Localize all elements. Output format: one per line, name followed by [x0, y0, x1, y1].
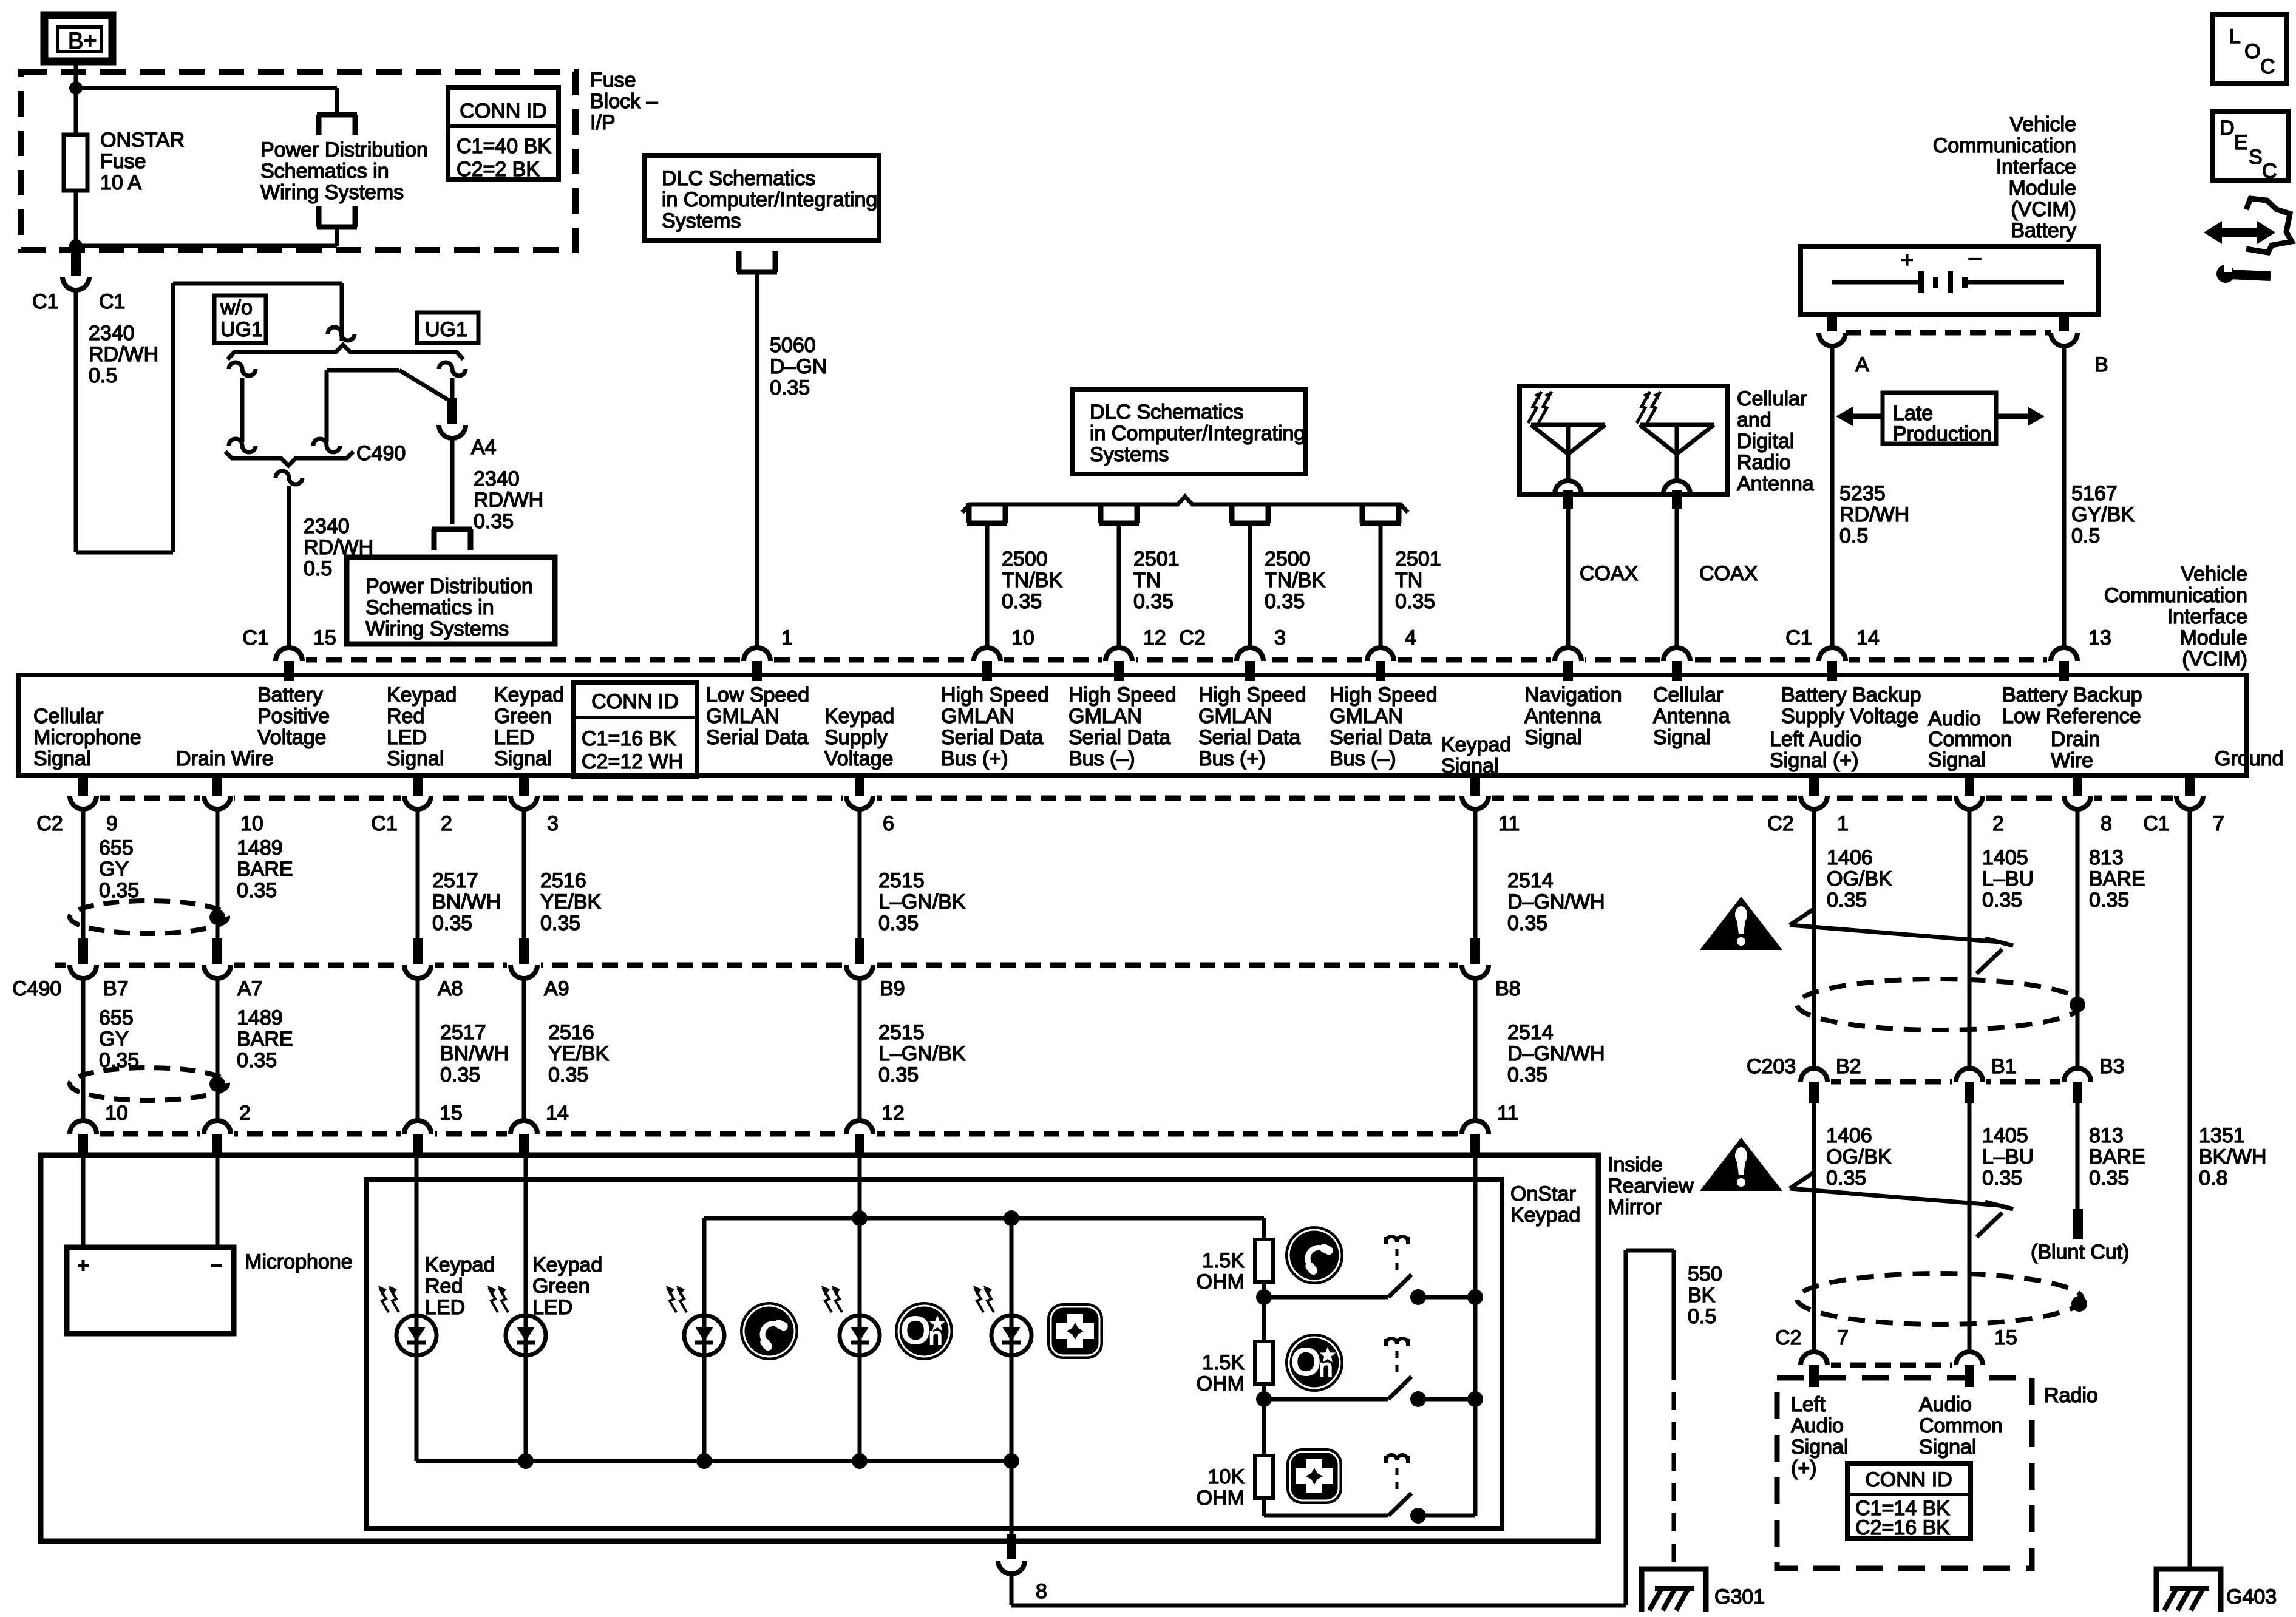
- svg-text:Green: Green: [494, 705, 552, 728]
- Microphone box: [67, 1247, 234, 1334]
- svg-text:Radio: Radio: [2044, 1384, 2098, 1407]
- svg-text:OHM: OHM: [1197, 1372, 1245, 1395]
- battery pin A: [1827, 314, 1837, 331]
- w/o UG1 box: [214, 296, 266, 343]
- C490 pin A8: [401, 958, 435, 972]
- svg-text:0.35: 0.35: [2089, 1167, 2129, 1190]
- svg-text:A7: A7: [237, 977, 263, 1000]
- DLC2 split brace: [962, 497, 1408, 512]
- mirror row pin 14: [507, 1127, 541, 1141]
- svg-text:D–GN: D–GN: [770, 355, 827, 378]
- svg-text:Keypad: Keypad: [1441, 733, 1511, 756]
- DESC box: [2213, 111, 2288, 180]
- radio pin 15: [1952, 1358, 1986, 1372]
- svg-text:813: 813: [2089, 846, 2124, 869]
- mirror row pin 12: [843, 1127, 877, 1141]
- shield ellipse 4: [1797, 1273, 2082, 1324]
- wire 2340 RD/WH 0.35: [450, 438, 455, 524]
- svg-text:C2=12 WH: C2=12 WH: [582, 750, 683, 773]
- wire 2514 D-GN/WH lower: [1473, 978, 1478, 1120]
- svg-text:L: L: [2229, 25, 2241, 48]
- svg-text:Interface: Interface: [2167, 605, 2247, 628]
- svg-text:Keypad: Keypad: [532, 1253, 602, 1276]
- switch row 3: [1264, 1514, 1388, 1518]
- svg-text:2: 2: [1992, 812, 2004, 835]
- CONN ID box (fuse block): [448, 87, 559, 180]
- svg-text:Positive: Positive: [257, 705, 330, 728]
- svg-text:BK: BK: [1688, 1284, 1716, 1307]
- svg-text:Block –: Block –: [590, 90, 658, 113]
- junction: [69, 81, 83, 95]
- service icon outline: [2246, 198, 2292, 253]
- svg-text:Fuse: Fuse: [100, 150, 146, 173]
- ground G301: [1642, 1569, 1706, 1612]
- phone button icon 2: [1285, 1226, 1343, 1284]
- svg-text:Serial Data: Serial Data: [941, 726, 1043, 749]
- svg-text:10: 10: [240, 812, 263, 835]
- svg-text:GMLAN: GMLAN: [1198, 705, 1272, 728]
- wire 2515 L-GN/BK lower: [858, 978, 862, 1120]
- svg-text:C490: C490: [12, 977, 61, 1000]
- connector C490 pin A4: [435, 418, 469, 432]
- LOC box: [2213, 15, 2287, 84]
- svg-text:Rearview: Rearview: [1608, 1175, 1694, 1198]
- svg-text:G301: G301: [1714, 1585, 1765, 1609]
- svg-text:2: 2: [441, 812, 452, 835]
- LED5: [991, 1315, 1031, 1355]
- svg-text:0.35: 0.35: [1982, 889, 2022, 912]
- LED5 wire: [1010, 1218, 1014, 1315]
- svg-text:1.5K: 1.5K: [1202, 1249, 1245, 1272]
- wire 2340 RD/WH 0.5 left run: [74, 290, 78, 552]
- svg-text:Audio: Audio: [1791, 1414, 1844, 1437]
- UG1 link wire: [327, 368, 399, 373]
- svg-text:GY: GY: [99, 858, 129, 881]
- svg-text:Serial Data: Serial Data: [706, 726, 808, 749]
- svg-text:C2: C2: [1179, 626, 1205, 649]
- svg-text:COAX: COAX: [1580, 562, 1638, 585]
- svg-text:0.35: 0.35: [99, 879, 139, 902]
- Radio dashed box: [1777, 1378, 2032, 1568]
- svg-text:0.35: 0.35: [770, 376, 810, 399]
- svg-text:813: 813: [2089, 1124, 2124, 1147]
- keypad signal bus: [1473, 1156, 1478, 1516]
- Late Production box: [1883, 393, 1996, 444]
- cross button icon: [1047, 1303, 1103, 1359]
- LED4: [840, 1315, 880, 1355]
- svg-text:Communication: Communication: [1933, 134, 2076, 157]
- svg-text:Green: Green: [532, 1275, 590, 1298]
- resistor feed: [1262, 1218, 1266, 1239]
- connector C1 fuse block: [59, 269, 93, 284]
- wire 1406 OG/BK lower: [1812, 1103, 1816, 1352]
- svg-text:Supply Voltage: Supply Voltage: [1781, 705, 1919, 728]
- VCIM bottom pin 2: [1952, 791, 1986, 805]
- svg-text:Cellular: Cellular: [33, 705, 103, 728]
- svg-text:L–BU: L–BU: [1982, 867, 2034, 890]
- mirror row pin 10: [66, 1127, 100, 1141]
- svg-text:0.35: 0.35: [1982, 1167, 2022, 1190]
- svg-text:11: 11: [1498, 812, 1520, 835]
- wire 2514 D-GN/WH upper: [1473, 809, 1478, 940]
- svg-text:DLC Schematics: DLC Schematics: [662, 167, 815, 190]
- CONN ID box (radio): [1847, 1463, 1971, 1539]
- svg-text:B3: B3: [2099, 1055, 2125, 1078]
- VCIM bottom pin 3: [507, 791, 541, 805]
- wire LED bus to connector 8: [1010, 1461, 1014, 1536]
- svg-text:CONN ID: CONN ID: [460, 100, 547, 123]
- svg-text:Module: Module: [2179, 626, 2247, 649]
- svg-text:ONSTAR: ONSTAR: [100, 129, 185, 152]
- power feed B+ box: [44, 15, 112, 61]
- svg-text:Signal: Signal: [1653, 726, 1711, 749]
- svg-text:YE/BK: YE/BK: [540, 890, 601, 914]
- wire 2516 YE/BK upper: [522, 809, 526, 940]
- UG1 branch curl: [439, 362, 466, 376]
- svg-text:2: 2: [239, 1102, 251, 1125]
- VCIM top pin 10: [970, 653, 1004, 667]
- svg-text:BN/WH: BN/WH: [440, 1042, 509, 1065]
- svg-text:Vehicle: Vehicle: [2009, 113, 2076, 136]
- svg-text:0.35: 0.35: [237, 1049, 277, 1072]
- svg-text:in Computer/Integrating: in Computer/Integrating: [1090, 422, 1305, 445]
- LED cathode bus: [415, 1355, 419, 1461]
- svg-text:1489: 1489: [237, 1006, 283, 1029]
- antenna cellular: [1640, 423, 1714, 427]
- pointer arrow 2: [1790, 1188, 2000, 1205]
- svg-text:Battery Backup: Battery Backup: [2002, 683, 2142, 707]
- svg-text:Signal: Signal: [1919, 1436, 1977, 1459]
- svg-text:Red: Red: [425, 1275, 463, 1298]
- C490 pin A7: [200, 958, 234, 972]
- svg-text:RD/WH: RD/WH: [89, 343, 158, 366]
- svg-text:0.35: 0.35: [1507, 1063, 1547, 1086]
- Power Distribution Schematics box: [347, 557, 555, 644]
- svg-text:0.5: 0.5: [1688, 1305, 1716, 1328]
- warning triangle 2: [1700, 1137, 1782, 1191]
- svg-text:C1: C1: [371, 812, 397, 835]
- mirror row pin 2: [200, 1127, 234, 1141]
- wire 1405 L-BU lower: [1968, 1103, 1972, 1352]
- svg-text:Ground: Ground: [2215, 747, 2283, 770]
- svg-text:Red: Red: [387, 705, 424, 728]
- svg-text:Serial Data: Serial Data: [1068, 726, 1170, 749]
- svg-text:LED: LED: [387, 726, 427, 749]
- C490 pin B7: [66, 958, 100, 972]
- svg-text:GY/BK: GY/BK: [2071, 503, 2135, 526]
- svg-text:2340: 2340: [304, 515, 350, 538]
- VCIM top pin 1: [740, 653, 774, 667]
- VCIM bottom pin 7: [2173, 791, 2207, 805]
- bracket from power distribution: [317, 206, 357, 227]
- resistor R1 1.5K: [1255, 1239, 1273, 1282]
- svg-text:Keypad: Keypad: [1510, 1204, 1580, 1227]
- svg-text:14: 14: [1856, 626, 1880, 649]
- COAX wire cellular: [1675, 509, 1679, 648]
- svg-text:(VCIM): (VCIM): [2011, 198, 2076, 221]
- svg-text:High Speed: High Speed: [1330, 683, 1438, 707]
- wire 655 GY lower: [81, 978, 86, 1120]
- svg-text:0.5: 0.5: [304, 557, 332, 580]
- svg-text:BARE: BARE: [237, 1028, 293, 1051]
- VCIM battery box: [1801, 246, 2098, 314]
- svg-text:Signal: Signal: [1928, 748, 1986, 771]
- svg-text:Signal: Signal: [1524, 726, 1582, 749]
- svg-text:Bus (+): Bus (+): [1198, 747, 1266, 770]
- svg-text:Navigation: Navigation: [1524, 683, 1622, 707]
- feed wire to VCIM C1-15: [276, 471, 302, 484]
- svg-text:(+): (+): [1791, 1457, 1817, 1480]
- svg-text:12: 12: [1143, 626, 1166, 649]
- svg-text:2340: 2340: [474, 467, 520, 490]
- svg-text:TN/BK: TN/BK: [1002, 569, 1062, 592]
- wire R2-R3: [1262, 1384, 1266, 1456]
- svg-text:Inside: Inside: [1608, 1153, 1663, 1176]
- svg-text:C490: C490: [356, 442, 406, 465]
- svg-text:2514: 2514: [1507, 869, 1554, 892]
- svg-text:BARE: BARE: [237, 858, 293, 881]
- svg-text:A4: A4: [471, 436, 497, 459]
- svg-text:LED: LED: [425, 1296, 465, 1319]
- svg-text:Signal (+): Signal (+): [1770, 749, 1858, 772]
- wire 2517 BN/WH lower: [416, 978, 420, 1120]
- svg-text:Left: Left: [1791, 1393, 1826, 1416]
- svg-text:1405: 1405: [1982, 1124, 2028, 1147]
- svg-text:Antenna: Antenna: [1653, 705, 1730, 728]
- switch row 2: [1264, 1397, 1388, 1402]
- svg-text:D: D: [2220, 117, 2235, 140]
- svg-text:Voltage: Voltage: [257, 726, 326, 749]
- onstar button icon 2: [1285, 1334, 1343, 1392]
- svg-text:10: 10: [1011, 626, 1034, 649]
- svg-text:Voltage: Voltage: [824, 747, 893, 770]
- warning triangle 1: [1700, 897, 1782, 950]
- svg-text:1: 1: [781, 626, 793, 649]
- svg-text:2517: 2517: [440, 1021, 486, 1044]
- svg-text:YE/BK: YE/BK: [548, 1042, 609, 1065]
- svg-text:2340: 2340: [89, 322, 135, 345]
- merge brace: [225, 452, 353, 466]
- mirror row pin 15: [401, 1127, 435, 1141]
- wire 5235 RD/WH 0.5: [1830, 346, 1835, 648]
- svg-text:15: 15: [313, 626, 336, 649]
- wire 813 BARE blunt cut: [2076, 1103, 2080, 1209]
- VCIM top pin 13: [2047, 653, 2081, 667]
- svg-text:5235: 5235: [1839, 482, 1886, 505]
- antenna navigation: [1531, 423, 1605, 427]
- svg-text:C1: C1: [99, 290, 125, 313]
- VCIM top connector dashed line: [276, 657, 2076, 663]
- svg-text:TN: TN: [1395, 569, 1422, 592]
- VCIM bottom pin 8: [2060, 791, 2094, 805]
- svg-text:RD/WH: RD/WH: [1839, 503, 1909, 526]
- svg-text:O: O: [2244, 40, 2260, 63]
- svg-text:BARE: BARE: [2089, 1145, 2145, 1168]
- wire 1489 BARE lower: [216, 978, 220, 1120]
- svg-text:2517: 2517: [432, 869, 478, 892]
- shield ellipse 2: [70, 1068, 228, 1100]
- svg-text:0.35: 0.35: [440, 1063, 480, 1086]
- wire 1351 BK/WH ground: [2188, 809, 2192, 1569]
- svg-text:2501: 2501: [1133, 547, 1180, 571]
- wire fuse to C1: [74, 191, 78, 251]
- wire to power distribution loop: [76, 86, 337, 90]
- VCIM bottom connector dashed line: [70, 796, 2204, 801]
- svg-text:C1=16 BK: C1=16 BK: [582, 727, 676, 750]
- svg-text:UG1: UG1: [220, 318, 263, 341]
- resistor R3 10K: [1255, 1456, 1273, 1498]
- wire to microphone +: [81, 1156, 86, 1247]
- svg-text:2501: 2501: [1395, 547, 1441, 571]
- svg-text:2500: 2500: [1265, 547, 1311, 571]
- svg-text:Power Distribution: Power Distribution: [260, 138, 428, 161]
- VCIM top pin 4: [1364, 653, 1398, 667]
- svg-text:OG/BK: OG/BK: [1827, 867, 1892, 890]
- svg-text:Antenna: Antenna: [1737, 472, 1814, 495]
- VCIM bottom pin 1: [1797, 791, 1831, 805]
- svg-text:0.35: 0.35: [1002, 590, 1042, 613]
- COAX wire navigation: [1566, 509, 1571, 648]
- svg-text:Cellular: Cellular: [1653, 683, 1723, 707]
- DLC2 drop bracket 3: [1230, 503, 1270, 523]
- svg-text:15: 15: [440, 1102, 463, 1125]
- svg-text:Module: Module: [2008, 177, 2076, 200]
- svg-text:10 A: 10 A: [100, 171, 141, 194]
- svg-text:0.35: 0.35: [878, 1063, 919, 1086]
- svg-text:CONN ID: CONN ID: [591, 690, 679, 713]
- svg-text:Supply: Supply: [824, 726, 888, 749]
- wire R1-R2: [1262, 1282, 1266, 1341]
- VCIM bottom pin 6: [843, 791, 877, 805]
- shield ellipse 3: [1797, 979, 2082, 1030]
- svg-text:TN: TN: [1133, 569, 1161, 592]
- svg-text:B9: B9: [880, 977, 905, 1000]
- svg-text:4: 4: [1405, 626, 1416, 649]
- svg-text:O: O: [901, 1310, 930, 1352]
- svg-text:C2: C2: [1767, 812, 1793, 835]
- svg-text:Drain: Drain: [2051, 728, 2100, 751]
- svg-text:655: 655: [99, 836, 134, 859]
- svg-text:Signal: Signal: [33, 747, 91, 770]
- svg-text:L–GN/BK: L–GN/BK: [878, 1042, 966, 1065]
- DLC2 drop bracket 1: [967, 503, 1007, 523]
- wire back to fuse bottom: [335, 229, 339, 246]
- svg-text:Serial Data: Serial Data: [1198, 726, 1300, 749]
- VCIM bottom pin 9: [66, 791, 100, 805]
- wire keypad red LED: [415, 1156, 419, 1315]
- svg-text:High Speed: High Speed: [1198, 683, 1306, 707]
- svg-text:10K: 10K: [1208, 1465, 1245, 1488]
- C490 pin A9: [507, 958, 541, 972]
- svg-text:655: 655: [99, 1006, 134, 1029]
- VCIM bottom pin 2: [401, 791, 435, 805]
- svg-text:Left Audio: Left Audio: [1770, 728, 1861, 751]
- svg-text:Schematics in: Schematics in: [365, 596, 494, 619]
- ground G403: [2156, 1569, 2221, 1612]
- wire 2500: [1248, 526, 1252, 648]
- svg-text:Common: Common: [1919, 1414, 2003, 1437]
- svg-text:Systems: Systems: [1090, 443, 1169, 466]
- svg-text:Audio: Audio: [1928, 707, 1981, 730]
- svg-text:A8: A8: [438, 977, 463, 1000]
- svg-text:Battery: Battery: [2011, 219, 2076, 242]
- svg-text:11: 11: [1497, 1102, 1518, 1125]
- svg-text:6: 6: [883, 812, 894, 835]
- service icon arrow: [2217, 228, 2262, 237]
- svg-text:0.35: 0.35: [1826, 1167, 1866, 1190]
- radio pin 7: [1797, 1358, 1831, 1372]
- svg-text:Signal: Signal: [1441, 754, 1499, 778]
- svg-text:S: S: [2249, 146, 2263, 169]
- svg-text:13: 13: [2088, 626, 2111, 649]
- keypad red LED: [396, 1315, 436, 1355]
- DLC Schematics box 2: [1072, 389, 1306, 474]
- svg-text:G403: G403: [2226, 1585, 2277, 1609]
- wire 2516 YE/BK lower: [522, 978, 526, 1120]
- svg-text:Low Speed: Low Speed: [706, 683, 809, 707]
- svg-text:High Speed: High Speed: [941, 683, 1049, 707]
- keypad supply wire: [858, 1156, 862, 1218]
- svg-text:Bus (+): Bus (+): [941, 747, 1008, 770]
- svg-text:0.35: 0.35: [1265, 590, 1305, 613]
- svg-text:O: O: [1291, 1341, 1320, 1383]
- svg-text:L–BU: L–BU: [1982, 1145, 2034, 1168]
- svg-text:Signal: Signal: [387, 747, 444, 770]
- svg-text:Production: Production: [1893, 422, 1992, 446]
- svg-text:B1: B1: [1991, 1055, 2017, 1078]
- svg-text:0.8: 0.8: [2199, 1167, 2227, 1190]
- svg-text:High Speed: High Speed: [1068, 683, 1177, 707]
- svg-text:BN/WH: BN/WH: [432, 890, 501, 914]
- switch row 1: [1264, 1295, 1388, 1300]
- bracket from DLC1: [737, 251, 777, 272]
- svg-text:1: 1: [1837, 812, 1849, 835]
- svg-text:GMLAN: GMLAN: [941, 705, 1014, 728]
- svg-text:Serial Data: Serial Data: [1330, 726, 1432, 749]
- svg-text:OG/BK: OG/BK: [1826, 1145, 1892, 1168]
- svg-text:OHM: OHM: [1197, 1486, 1245, 1510]
- C203 pin B1: [1952, 1074, 1986, 1089]
- svg-text:Battery Backup: Battery Backup: [1781, 683, 1921, 707]
- svg-text:1406: 1406: [1826, 1124, 1872, 1147]
- svg-text:C2=16 BK: C2=16 BK: [1855, 1516, 1950, 1539]
- svg-text:RD/WH: RD/WH: [474, 489, 543, 512]
- VCIM top pin antenna: [1660, 653, 1694, 667]
- wire to microphone -: [216, 1156, 220, 1247]
- svg-text:0.35: 0.35: [474, 510, 514, 533]
- VCIM bottom pin 10: [200, 791, 234, 805]
- svg-text:C: C: [2262, 160, 2277, 183]
- wire 2501: [1379, 526, 1383, 648]
- VCIM module box: [18, 675, 2247, 775]
- fuse ONSTAR 10A: [64, 135, 87, 191]
- svg-text:Common: Common: [1928, 728, 2012, 751]
- svg-text:8: 8: [1036, 1580, 1047, 1603]
- fuse block dashed outline: [21, 72, 576, 250]
- wire R3 down: [1262, 1498, 1266, 1516]
- svg-text:0.35: 0.35: [548, 1063, 588, 1086]
- keypad feeder line: [704, 1216, 1264, 1221]
- svg-text:0.35: 0.35: [237, 879, 277, 902]
- svg-text:Microphone: Microphone: [33, 726, 141, 749]
- LED4 wire: [858, 1218, 862, 1315]
- svg-text:Digital: Digital: [1737, 430, 1794, 453]
- option split brace: [228, 345, 463, 359]
- svg-text:1.5K: 1.5K: [1202, 1351, 1245, 1374]
- svg-text:UG1: UG1: [425, 318, 467, 341]
- svg-text:0.35: 0.35: [1133, 590, 1173, 613]
- C490 pin B9: [843, 958, 877, 972]
